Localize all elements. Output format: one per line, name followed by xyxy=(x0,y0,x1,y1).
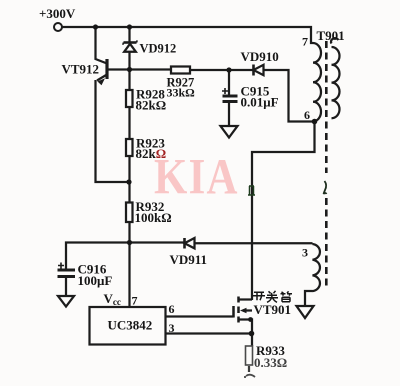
svg-text:UC3842: UC3842 xyxy=(108,318,153,333)
svg-text:VD910: VD910 xyxy=(241,49,279,64)
svg-text:82kΩ: 82kΩ xyxy=(136,146,167,161)
svg-text:100kΩ: 100kΩ xyxy=(135,210,172,225)
svg-text:KIA: KIA xyxy=(154,149,239,205)
svg-text:7: 7 xyxy=(302,35,308,49)
svg-text:7: 7 xyxy=(132,294,138,308)
svg-text:82kΩ: 82kΩ xyxy=(136,98,167,113)
svg-text:0.33Ω: 0.33Ω xyxy=(254,355,287,370)
svg-text:T901: T901 xyxy=(317,28,345,43)
svg-text:33kΩ: 33kΩ xyxy=(167,86,196,100)
svg-text:+300V: +300V xyxy=(39,6,76,21)
svg-text:6: 6 xyxy=(304,108,310,122)
svg-text:VD911: VD911 xyxy=(170,252,208,267)
svg-text:3: 3 xyxy=(169,321,175,335)
svg-text:VD912: VD912 xyxy=(140,42,177,56)
svg-text:100μF: 100μF xyxy=(78,273,113,288)
svg-text:VT912: VT912 xyxy=(62,62,100,77)
svg-text:3: 3 xyxy=(302,246,308,260)
svg-text:VT901: VT901 xyxy=(254,302,292,317)
svg-text:6: 6 xyxy=(169,302,175,316)
svg-text:0.01μF: 0.01μF xyxy=(241,95,279,110)
